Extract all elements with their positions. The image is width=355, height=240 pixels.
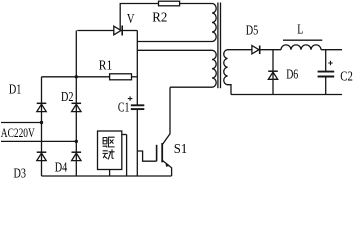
glyph 动: [103, 149, 115, 159]
svg-text:D5: D5: [246, 23, 258, 38]
diode D4: [72, 151, 82, 153]
wire bus to primary1 bottom: [137, 41, 212, 43]
capacitor C2 plus: [328, 61, 332, 65]
AC input wire 1: [1, 122, 42, 124]
transformer primary winding 1: [212, 4, 216, 42]
AC input wire 2: [1, 140, 76, 142]
diode D6 leg: [272, 50, 274, 95]
wire R2 to transformer primary 1 top: [180, 3, 212, 5]
inductor L: [281, 45, 321, 50]
bus vertical lower (C1 bottom to rail): [136, 109, 138, 176]
diode D2: [72, 102, 82, 104]
diode D5: [252, 46, 259, 54]
svg-text:V: V: [127, 12, 135, 27]
inductor core bar: [283, 39, 322, 41]
resistor R1: [110, 74, 132, 80]
gate wire from bus with jog: [137, 151, 156, 161]
transformer secondary winding: [224, 50, 231, 95]
driver box: [98, 131, 122, 170]
secondary top wire to D5: [228, 49, 252, 51]
wire from bridge + riser to diode V: [77, 30, 114, 32]
svg-text:D6: D6: [286, 67, 298, 82]
capacitor C2 plates: [318, 71, 335, 73]
driver box right lead down: [126, 135, 128, 177]
capacitor C2 lower leg: [325, 77, 327, 95]
diode D6: [268, 70, 278, 72]
bottom rail: [42, 175, 172, 177]
junction dot AC2: [75, 140, 78, 143]
bridge left leg: [41, 77, 43, 176]
diode D3: [37, 151, 47, 153]
wire top from diode V up and right to R2: [120, 4, 158, 31]
resistor R2: [159, 1, 180, 6]
bottom output wire: [231, 94, 342, 96]
driver box right stub: [122, 134, 127, 136]
svg-text:AC220V: AC220V: [1, 125, 35, 140]
capacitor C2 leg: [325, 50, 327, 71]
bus vertical upper (to C1 top plate): [136, 31, 138, 106]
wire R1 to bus: [132, 76, 138, 78]
junction dot AC1: [40, 121, 43, 124]
wire D5 to L: [260, 49, 281, 51]
transformer primary winding 2: [212, 50, 216, 87]
svg-text:C1: C1: [118, 101, 129, 116]
junction dot rail/riser: [75, 75, 78, 78]
svg-text:L: L: [297, 23, 303, 38]
svg-text:D1: D1: [9, 82, 22, 97]
driver box bottom lead: [109, 170, 111, 177]
svg-text:S1: S1: [174, 142, 188, 157]
wire L to output +: [321, 49, 342, 51]
svg-text:D2: D2: [61, 90, 74, 105]
svg-text:C2: C2: [340, 70, 353, 85]
diode D1: [37, 102, 47, 104]
wire diode V to bus: [122, 30, 137, 32]
capacitor C1 plates: [131, 104, 145, 106]
S1 emitter with arrow: [162, 160, 171, 176]
wire primary2 bottom to S1 collector: [170, 86, 212, 88]
svg-text:R2: R2: [152, 10, 167, 25]
transformer core: [217, 3, 219, 89]
svg-text:D3: D3: [14, 167, 27, 180]
S1 collector riser: [162, 87, 170, 145]
svg-text:R1: R1: [99, 58, 113, 73]
diode V: [114, 26, 121, 35]
bridge right leg: [75, 77, 77, 176]
capacitor C1 plus sign: [128, 96, 133, 100]
glyph 驱: [103, 137, 115, 147]
riser right leg to diode V wire: [75, 31, 77, 77]
main + rail: [42, 76, 110, 78]
transistor S1 gate bar: [156, 145, 158, 161]
transistor S1 body bar: [161, 143, 163, 162]
wire bus to primary2 top: [137, 49, 212, 51]
svg-text:D4: D4: [55, 161, 68, 176]
